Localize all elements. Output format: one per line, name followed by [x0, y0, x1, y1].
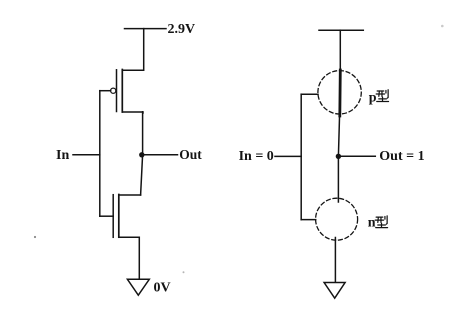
ground: right triangle	[324, 283, 345, 299]
svg-text:In: In	[56, 148, 69, 163]
wire: mid vertical through output node	[141, 112, 143, 195]
svg-text:In = 0: In = 0	[239, 149, 274, 164]
node: right output junction dot	[336, 154, 341, 159]
svg-text:n: n	[368, 216, 376, 231]
wire: n switch to ground	[334, 238, 336, 283]
wire: NMOS gate to In column	[100, 215, 113, 217]
right circuit: VDD rail	[319, 29, 363, 31]
svg-text:p: p	[369, 91, 377, 106]
n-type dashed circle	[316, 198, 358, 240]
wire: n gate lead	[301, 219, 316, 221]
svg-text:0V: 0V	[154, 281, 171, 296]
scan speck left	[34, 236, 36, 238]
wire: In = 0 gate column	[300, 94, 302, 219]
transistor Q1 PMOS gate bar	[116, 70, 118, 112]
wire: In = 0 lead	[275, 155, 301, 157]
svg-text:Out: Out	[179, 147, 202, 162]
wire: PMOS gate to In column	[100, 90, 111, 92]
wire: rail drop to p switch	[339, 30, 341, 72]
wire: p gate lead	[301, 93, 318, 95]
svg-text:2.9V: 2.9V	[168, 22, 196, 37]
transistor Q2 NMOS gate bar	[112, 195, 114, 238]
transistor Q2 NMOS channel bar	[118, 195, 120, 238]
wire: Out = 1 lead	[338, 155, 375, 157]
transistor Q1 PMOS channel bar	[121, 70, 123, 113]
svg-text:Out = 1: Out = 1	[379, 149, 424, 164]
scan speck top right	[441, 25, 444, 28]
node: output junction dot	[139, 152, 144, 157]
wire: stub into n switch (open)	[337, 156, 339, 202]
wire: p switch to output node	[338, 114, 339, 156]
left circuit: VDD rail	[125, 28, 167, 30]
wire: NMOS drain arm	[119, 194, 141, 196]
wire: PMOS source to output node	[122, 112, 143, 113]
wire: In lead	[73, 154, 100, 156]
wire: In vertical column	[99, 91, 101, 217]
label 型 glyph of n型	[375, 216, 387, 228]
wire: NMOS source down to ground	[119, 237, 140, 279]
wire: Out lead	[142, 154, 178, 156]
scan speck mid	[183, 271, 185, 273]
p-type dashed circle	[318, 71, 361, 114]
ground: left triangle	[127, 279, 149, 295]
PMOS gate bubble	[111, 88, 116, 93]
wire: rail drop to PMOS drain	[122, 29, 143, 71]
p-type switch closed contact (bold)	[338, 70, 341, 116]
label 型 glyph of p型	[376, 90, 388, 102]
